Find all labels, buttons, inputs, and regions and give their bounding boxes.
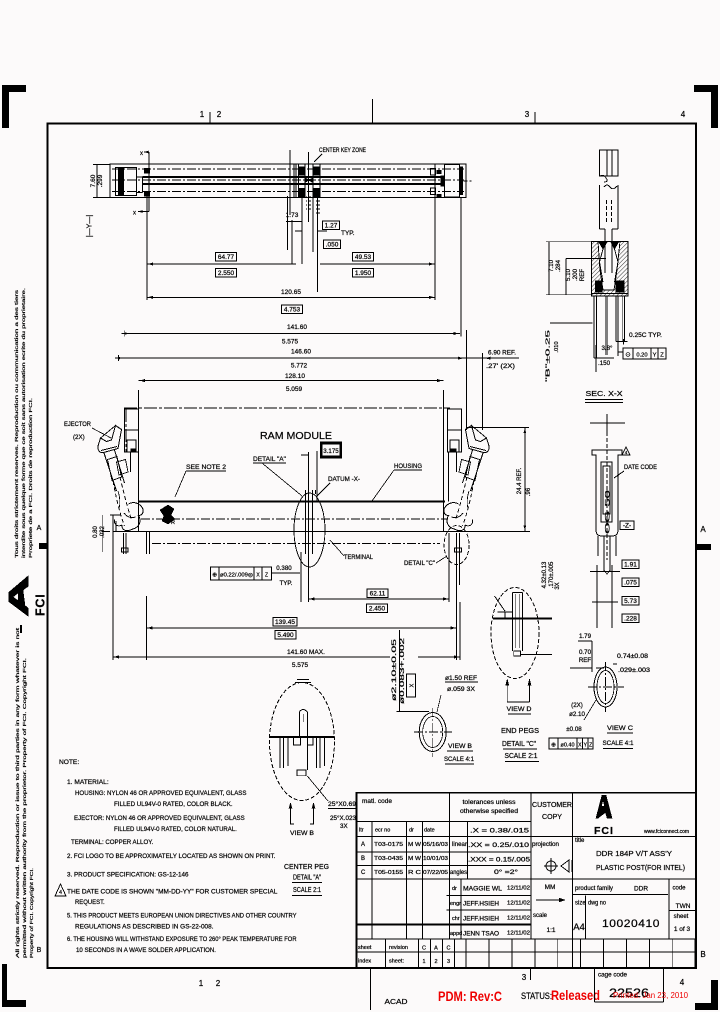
svg-text:3. PRODUCT SPECIFICATION: GS-1: 3. PRODUCT SPECIFICATION: GS-12-146: [67, 872, 189, 879]
datum -Z- boxed: [620, 521, 634, 530]
svg-text:A: A: [361, 842, 365, 848]
svg-text:Propriete de a FCI. Droits de: Propriete de a FCI. Droits de reproducti…: [28, 398, 33, 558]
dimension line 128.10: [138, 380, 443, 382]
front view left latch tower: [125, 409, 139, 452]
view d broken edge: [495, 596, 506, 611]
zone tick top: [209, 112, 211, 123]
svg-text:⊕: ⊕: [551, 743, 556, 749]
svg-text:matl. code: matl. code: [362, 798, 392, 805]
svg-text:141.60 MAX.: 141.60 MAX.: [287, 649, 325, 656]
svg-text:3: 3: [525, 110, 530, 119]
view d dashed ellipse: [491, 588, 539, 679]
svg-text:HOUSING: NYLON 46 OR APPROVED: HOUSING: NYLON 46 OR APPROVED EQUIVALENT…: [75, 790, 247, 797]
svg-text:VIEW B: VIEW B: [448, 743, 472, 750]
svg-text:120.65: 120.65: [281, 289, 301, 296]
svg-text:6.90 REF.: 6.90 REF.: [488, 351, 516, 357]
svg-text:.200: .200: [572, 268, 579, 281]
svg-text:.228: .228: [624, 615, 637, 622]
svg-text:A: A: [700, 525, 706, 534]
svg-text:5. THIS PRODUCT MEETS EUROPEAN: 5. THIS PRODUCT MEETS EUROPEAN UNION DIR…: [67, 913, 297, 920]
svg-text:1.950: 1.950: [355, 270, 372, 277]
front view ram module phantom top line: [124, 407, 450, 409]
svg-text:dr: dr: [409, 828, 414, 834]
section cut line X-X: [148, 152, 150, 212]
center peg detail dashed ellipse: [270, 683, 335, 801]
front view housing top thick line: [138, 500, 445, 502]
svg-text:1.91: 1.91: [624, 561, 637, 568]
sheet index cells: [384, 939, 386, 968]
svg-text:HOUSING: HOUSING: [394, 463, 422, 470]
svg-text:.XXX = 0.15/.005: .XXX = 0.15/.005: [468, 857, 531, 864]
side view pin tip lines: [597, 536, 599, 556]
svg-text:DETAIL "A": DETAIL "A": [293, 875, 321, 882]
svg-text:MM: MM: [545, 884, 556, 891]
svg-text:ø0.083+.002: ø0.083+.002: [400, 637, 406, 704]
svg-text:⊕: ⊕: [212, 573, 217, 579]
svg-text:05/16/03: 05/16/03: [423, 842, 448, 848]
svg-text:10020410: 10020410: [602, 918, 660, 930]
svg-text:index: index: [358, 959, 371, 965]
top view key zone long verticals: [289, 150, 291, 215]
svg-text:PLASTIC POST(FOR INTEL): PLASTIC POST(FOR INTEL): [596, 863, 685, 872]
svg-text:.010: .010: [554, 341, 560, 352]
svg-text:0.74±0.08: 0.74±0.08: [617, 653, 649, 660]
view c dim lines: [591, 641, 593, 672]
front view center peg: [305, 490, 307, 554]
svg-text:12/11/02: 12/11/02: [507, 916, 530, 922]
svg-text:T05-0155: T05-0155: [374, 870, 403, 876]
corner mark bottom-left: [2, 964, 7, 1007]
svg-text:.284: .284: [555, 259, 562, 272]
dimension line 139.45: [147, 627, 457, 629]
svg-text:.299: .299: [97, 174, 104, 187]
svg-text:62.11: 62.11: [370, 590, 386, 597]
svg-text:Printed: Jan 23, 2010: Printed: Jan 23, 2010: [613, 990, 688, 1000]
dimension 2.550 boxed: [216, 268, 237, 277]
center peg detail legs left: [279, 738, 281, 768]
svg-text:4.32±0.13: 4.32±0.13: [542, 561, 548, 588]
svg-text:1 of 3: 1 of 3: [674, 926, 691, 933]
svg-text:A: A: [37, 525, 42, 532]
top view right cap centerline stub: [464, 180, 472, 182]
dimension 1.73 underline: [286, 221, 302, 223]
front view housing centerline dash-dot: [141, 518, 448, 520]
svg-text:0.380: 0.380: [276, 565, 292, 572]
svg-text:1: 1: [200, 110, 205, 119]
top view inner dash-dot line lower: [112, 191, 464, 193]
view d bracket: [506, 679, 508, 702]
svg-text:R C: R C: [408, 870, 421, 876]
svg-text:sheet:: sheet:: [389, 959, 404, 965]
front view left ejector pivot curves: [118, 491, 120, 509]
svg-text:1. MATERIAL:: 1. MATERIAL:: [67, 779, 109, 786]
svg-text:JEFF.HSIEH: JEFF.HSIEH: [463, 917, 499, 923]
dimension 49.53 boxed: [353, 252, 374, 261]
extension line left peg: [146, 196, 148, 300]
svg-text:4: 4: [680, 978, 685, 987]
section arrow X top: [144, 151, 149, 153]
dimension 139.45 boxed: [273, 617, 297, 626]
top view center key slot marks: [293, 164, 295, 198]
svg-text:FCI: FCI: [594, 825, 614, 837]
left sidebar FCI logo rotated: [9, 576, 29, 616]
dimension boxes 1.91 .075 5.73 .228: [622, 560, 639, 569]
svg-text:.X = 0.38/.015: .X = 0.38/.015: [470, 828, 530, 835]
svg-text:dwg no: dwg no: [588, 901, 607, 907]
svg-text:projection: projection: [532, 841, 560, 848]
svg-text:TERMINAL: TERMINAL: [344, 554, 373, 561]
fci logo title block: [596, 795, 612, 818]
extension line right peg: [434, 196, 436, 300]
svg-text:07/22/05: 07/22/05: [423, 870, 448, 876]
svg-text:engr: engr: [450, 901, 461, 907]
svg-text:SCALE 2:1: SCALE 2:1: [293, 887, 321, 894]
zone divider tick bottom: [370, 968, 372, 1010]
svg-text:3X: 3X: [340, 823, 348, 830]
svg-text:49.53: 49.53: [355, 254, 372, 261]
title block outer: [357, 793, 697, 968]
svg-text:ecr no: ecr no: [375, 828, 390, 834]
zone tick top right: [534, 112, 536, 123]
svg-text:appd: appd: [450, 931, 462, 937]
center peg detail peg body: [298, 712, 300, 737]
dimension line 141.60: [121, 333, 460, 335]
top view key slot secondary: [305, 196, 307, 212]
svg-text:cage code: cage code: [598, 972, 628, 979]
dimension line 146.60 / 6.90: [115, 357, 519, 359]
front view center peg dim extension: [300, 552, 302, 602]
left sidebar registered dash: [20, 625, 22, 633]
svg-text:2: 2: [216, 979, 221, 988]
svg-text:sheet: sheet: [358, 945, 372, 951]
dimension line 141.60 front: [113, 656, 390, 658]
front view left ejector lever group: [98, 426, 143, 531]
svg-text:2.450: 2.450: [369, 605, 386, 612]
svg-text:3: 3: [522, 973, 527, 982]
svg-text:12/11/02: 12/11/02: [507, 886, 530, 892]
sec x-x cavity white: [598, 241, 620, 290]
svg-text:otherwise specified: otherwise specified: [460, 808, 519, 815]
svg-text:146.60: 146.60: [291, 349, 311, 356]
svg-text:OG 50: OG 50: [605, 490, 612, 534]
svg-text:B: B: [700, 950, 705, 959]
svg-text:5.575: 5.575: [292, 662, 309, 669]
svg-text:4: 4: [59, 890, 62, 896]
top view right body end line: [434, 164, 436, 198]
dimension line 120.65: [147, 296, 435, 298]
svg-text:VIEW B: VIEW B: [290, 830, 314, 837]
svg-text:25°X0.69: 25°X0.69: [328, 801, 357, 808]
front view right housing end profile: [448, 452, 450, 502]
title block horizontal lines: [357, 820, 532, 822]
svg-text:12/11/02: 12/11/02: [507, 901, 530, 907]
extension line right cap: [460, 198, 462, 337]
svg-text:ACAD: ACAD: [385, 999, 408, 1006]
front view left housing end profile: [138, 390, 140, 532]
dimension 64.77 boxed: [216, 252, 237, 261]
top view key center band marks: [305, 178, 309, 183]
svg-text:4.753: 4.753: [284, 306, 301, 313]
dimension B extension line: [550, 322, 593, 324]
svg-text:Z: Z: [265, 573, 268, 579]
svg-text:CUSTOMER: CUSTOMER: [532, 802, 572, 809]
dimension 62.11 boxed: [367, 589, 388, 598]
sec x-x dim extension lines: [546, 241, 591, 243]
svg-text:2. FCI LOGO TO BE APPROXIMATEL: 2. FCI LOGO TO BE APPROXIMATELY LOCATED …: [67, 853, 275, 860]
svg-text:C: C: [447, 946, 451, 952]
svg-text:128.10: 128.10: [285, 373, 305, 380]
svg-text:interdite sous quelque forme q: interdite sous quelque forme que ce soit…: [21, 288, 26, 558]
view b small circle: [419, 713, 446, 752]
svg-text:THE DATE CODE IS SHOWN "MM-DD-: THE DATE CODE IS SHOWN "MM-DD-YY" FOR CU…: [67, 889, 278, 896]
svg-text:chr: chr: [452, 916, 460, 922]
svg-text:sheet: sheet: [674, 914, 689, 920]
row divider tick left: [39, 543, 48, 549]
svg-text:linear: linear: [452, 842, 467, 848]
side view centerline dashed: [606, 432, 608, 560]
svg-text:6. THE HOUSING WILL WITHSTAND: 6. THE HOUSING WILL WITHSTAND EXPOSURE T…: [67, 935, 297, 943]
view b bracket below center peg detail: [291, 806, 295, 824]
svg-text:DETAIL "C": DETAIL "C": [502, 741, 536, 748]
svg-text:.050: .050: [326, 241, 339, 248]
front view fci molded logo: [160, 505, 175, 524]
side view body outline: [592, 450, 622, 536]
svg-text:.96: .96: [526, 487, 532, 496]
corner mark bottom-right: [695, 1003, 718, 1010]
front view right ejector lever mirrored: [444, 426, 489, 531]
svg-text:VIEW D: VIEW D: [507, 706, 532, 713]
view b leader: [437, 695, 441, 712]
svg-text:10/01/03: 10/01/03: [423, 856, 448, 862]
svg-text:Z: Z: [660, 353, 664, 359]
view c ellipse: [594, 667, 617, 707]
svg-text:product family: product family: [575, 886, 613, 892]
svg-text:141.60: 141.60: [287, 324, 307, 331]
top view right slot end block: [441, 176, 445, 187]
svg-text:Y: Y: [653, 353, 657, 359]
svg-text:All rights strictly reserved.: All rights strictly reserved. Reproducti…: [15, 627, 20, 958]
note 4 triangle: [55, 884, 66, 896]
svg-text:M W: M W: [408, 842, 422, 848]
svg-text:.27' (2X): .27' (2X): [486, 364, 515, 370]
svg-text:B: B: [37, 947, 42, 954]
svg-text:ø2.10: ø2.10: [569, 711, 585, 718]
svg-text:REF: REF: [579, 657, 592, 664]
leader to view b hole: [398, 630, 400, 712]
svg-text:1: 1: [422, 959, 425, 965]
view d peg: [512, 593, 514, 652]
svg-text:CENTER KEY ZONE: CENTER KEY ZONE: [319, 148, 366, 154]
svg-text:.XX = 0.25/.010: .XX = 0.25/.010: [468, 842, 530, 849]
svg-text:2: 2: [217, 110, 222, 119]
front view left end peg: [123, 533, 125, 554]
feature control frame 0.20 Y Z: [623, 348, 666, 359]
corner mark top-right: [694, 85, 718, 92]
svg-text:angles: angles: [450, 870, 467, 876]
svg-text:size: size: [575, 901, 586, 907]
svg-text:5.73: 5.73: [624, 598, 637, 605]
svg-text:TERMINAL: COPPER ALLOY.: TERMINAL: COPPER ALLOY.: [71, 839, 153, 846]
svg-text:www.fciconnect.com: www.fciconnect.com: [644, 829, 689, 835]
dimension 1.27 boxed: [322, 221, 339, 230]
dimension 4.753 boxed: [282, 305, 303, 314]
svg-text:VIEW C: VIEW C: [607, 725, 633, 732]
view c centerlines: [588, 686, 624, 688]
dimension 1.950 boxed: [353, 268, 374, 277]
svg-text:TWN: TWN: [676, 903, 691, 910]
view d peg bottom dim line: [521, 654, 552, 656]
center peg detail top tab: [295, 682, 311, 684]
svg-text:NOTE:: NOTE:: [59, 759, 79, 766]
sec x-x pin break lines: [600, 175, 618, 188]
svg-text:EJECTOR: EJECTOR: [64, 421, 91, 428]
svg-text:2: 2: [434, 959, 437, 965]
extension verticals right group: [465, 330, 467, 430]
svg-text:ø1.50 REF: ø1.50 REF: [445, 675, 477, 682]
svg-text:SCALE 2:1: SCALE 2:1: [505, 753, 538, 760]
sec x-x terminal pin second segment: [599, 185, 601, 229]
top view slot line upper: [143, 176, 441, 178]
svg-text:0.80: 0.80: [93, 526, 99, 538]
svg-text:T03-0435: T03-0435: [374, 856, 403, 862]
sec x-x bottom corner blocks: [595, 280, 603, 292]
svg-text:A: A: [434, 946, 438, 952]
svg-text:ø.059 3X: ø.059 3X: [447, 686, 475, 693]
top view right end slot boxes: [431, 168, 436, 175]
svg-text:4: 4: [681, 110, 686, 119]
top view slot line lower: [143, 183, 441, 185]
svg-text:permitted without written auth: permitted without written authority from…: [22, 658, 27, 958]
top view left peg mark: [144, 168, 150, 174]
svg-text:FILLED UL94V-0 RATED, COLOR BL: FILLED UL94V-0 RATED, COLOR BLACK.: [114, 801, 233, 808]
svg-text:PDM: Rev:C: PDM: Rev:C: [438, 989, 502, 1004]
top view right end polarization bar: [459, 167, 463, 196]
svg-text:1.79: 1.79: [579, 633, 592, 640]
svg-text:SCALE 4:1: SCALE 4:1: [444, 756, 474, 763]
svg-text:DATUM -X-: DATUM -X-: [328, 476, 360, 483]
view d housing line: [493, 618, 552, 620]
top view inner dash-dot line upper: [112, 168, 464, 170]
svg-text:revision: revision: [389, 945, 408, 951]
svg-text:M W: M W: [408, 856, 422, 862]
side view bottom pin: [603, 536, 605, 572]
front view lower dash-dot line: [152, 543, 440, 545]
feature control frame dia 0.40 X Y Z: [549, 738, 593, 749]
top view right end cap: [444, 164, 459, 197]
svg-text:C: C: [361, 870, 366, 876]
svg-text:3.8°: 3.8°: [601, 345, 613, 352]
svg-text:ltr: ltr: [359, 828, 364, 834]
side view top centerline cross: [590, 422, 625, 424]
svg-text:DDR 184P V/T ASS'Y: DDR 184P V/T ASS'Y: [596, 849, 672, 858]
svg-text:DDR: DDR: [634, 886, 648, 893]
section arrow X bottom: [138, 211, 149, 213]
svg-text:0.20: 0.20: [636, 353, 647, 359]
front view module left edge phantom: [125, 409, 127, 452]
svg-text:REGULATIONS AS DESCRIBED IN GS: REGULATIONS AS DESCRIBED IN GS-22-008.: [75, 924, 214, 931]
svg-text:±0.08: ±0.08: [566, 726, 582, 733]
svg-text:⊙: ⊙: [625, 352, 631, 359]
svg-text:1:1: 1:1: [546, 927, 555, 934]
svg-text:REQUEST.: REQUEST.: [75, 899, 105, 906]
svg-text:5.490: 5.490: [277, 632, 294, 639]
sec x-x terminal pin upper: [600, 150, 619, 176]
datum X box rotated: [407, 674, 416, 697]
side view dim lines: [590, 571, 620, 573]
front view right latch tower: [448, 409, 462, 452]
front view board line: [113, 531, 530, 533]
svg-text:DETAIL "C": DETAIL "C": [404, 560, 436, 567]
svg-text:DATE CODE: DATE CODE: [624, 464, 657, 471]
svg-text:JEFF.HSIEH: JEFF.HSIEH: [463, 902, 499, 908]
center peg detail bottom box: [297, 770, 306, 776]
top view right peg mark: [437, 170, 442, 174]
svg-text:139.45: 139.45: [275, 619, 295, 626]
svg-text:title: title: [575, 838, 585, 844]
svg-text:Property of FCI. Copyright FC: Property of FCI. Copyright FCI.: [29, 868, 34, 958]
drawing frame: [48, 123, 697, 968]
sec x-x housing bottom legs: [593, 296, 595, 358]
top view left end polarization bar: [118, 168, 124, 196]
center peg detail step right: [307, 737, 313, 745]
svg-text:B: B: [361, 856, 365, 862]
svg-text:C: C: [422, 946, 426, 952]
projection symbol: [546, 861, 556, 871]
dimension line 64.77 / 49.53: [147, 263, 296, 265]
center peg detail main line: [270, 736, 334, 738]
svg-text:COPY: COPY: [542, 814, 562, 821]
svg-text:STATUS:: STATUS:: [521, 991, 552, 1001]
front view module right edge extension: [443, 390, 445, 531]
svg-text:ø2.10±0.05: ø2.10±0.05: [392, 638, 398, 701]
sec x-x terminal pin narrow: [604, 229, 606, 273]
front view dim extension verticals: [146, 596, 148, 660]
view b centerlines: [414, 731, 452, 733]
svg-text:tolerances unless: tolerances unless: [463, 799, 516, 806]
svg-text:-Z-: -Z-: [623, 522, 631, 529]
svg-text:|—Y—|: |—Y—|: [87, 215, 94, 237]
svg-text:EJECTOR: NYLON 46 OR APPROVED: EJECTOR: NYLON 46 OR APPROVED EQUIVALENT…: [74, 815, 245, 822]
svg-text:X: X: [410, 683, 416, 687]
svg-text:Tous droits strictement reserv: Tous droits strictement reserves. Reprod…: [14, 289, 19, 558]
svg-text:.075: .075: [624, 579, 637, 586]
svg-text:code: code: [672, 886, 686, 892]
sec x-x terminal in cavity: [604, 241, 606, 273]
svg-text:ø0.40: ø0.40: [560, 743, 574, 749]
svg-text:dr: dr: [452, 886, 457, 892]
dimension 2.450 boxed: [367, 604, 388, 613]
row divider tick right: [697, 544, 711, 550]
svg-text:3: 3: [447, 959, 450, 965]
svg-text:MAGGIE WL: MAGGIE WL: [463, 887, 503, 893]
svg-text:A4: A4: [573, 922, 585, 933]
svg-text:0° =2°: 0° =2°: [494, 869, 519, 876]
svg-text:JENN TSAO: JENN TSAO: [463, 932, 499, 938]
detail A ellipse around center peg: [294, 493, 325, 567]
svg-text:"B"±0.25: "B"±0.25: [546, 330, 552, 382]
svg-text:1: 1: [199, 979, 204, 988]
svg-text:(2X): (2X): [571, 702, 583, 709]
note4 triangle flag: [622, 447, 630, 455]
svg-text:SEE NOTE 2: SEE NOTE 2: [186, 464, 226, 471]
top view left body edge: [142, 177, 144, 193]
dimension 5.490 boxed: [275, 630, 296, 639]
dimension .050 boxed: [323, 240, 340, 249]
top view left end cap: [116, 168, 137, 196]
svg-text:3X: 3X: [555, 582, 561, 589]
svg-text:Z: Z: [589, 743, 592, 749]
svg-text:1.27: 1.27: [325, 222, 338, 229]
